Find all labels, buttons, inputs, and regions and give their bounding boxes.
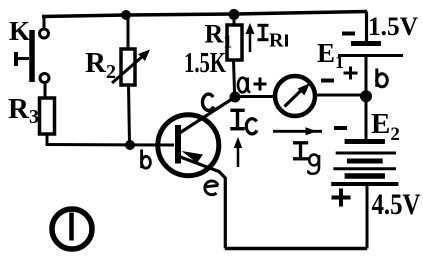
label minus meter bbox=[321, 79, 334, 83]
node junction dot (R1 top) bbox=[229, 9, 240, 20]
svg-text:1.5K: 1.5K bbox=[184, 47, 226, 79]
label plus E1 bbox=[344, 67, 358, 80]
resistor R1 bbox=[227, 16, 242, 92]
wire bottom bbox=[225, 247, 367, 251]
resistor R2 variable bbox=[112, 16, 150, 144]
label c bbox=[203, 94, 214, 110]
wire node a to meter bbox=[241, 95, 276, 98]
current arrow I_g bbox=[273, 127, 322, 135]
svg-text:R: R bbox=[269, 30, 284, 52]
label I_C bbox=[230, 110, 244, 128]
label a bbox=[238, 78, 250, 93]
label I_g bbox=[293, 143, 308, 159]
switch K bbox=[16, 17, 49, 99]
wire bottom-left to base bbox=[46, 143, 175, 147]
svg-text:1.5V: 1.5V bbox=[368, 12, 418, 41]
svg-text:K: K bbox=[9, 16, 30, 46]
node junction dot (R2 top) bbox=[121, 10, 131, 20]
transistor Q1 bbox=[158, 97, 235, 249]
label b node bbox=[377, 69, 388, 87]
current arrow I_R1 bbox=[246, 23, 255, 52]
label minus E2 bbox=[334, 126, 347, 130]
figure mark circled I bbox=[52, 209, 92, 249]
node junction dot (R2 bottom) bbox=[125, 140, 135, 150]
node b bbox=[360, 90, 372, 102]
battery E1 bbox=[338, 12, 403, 92]
current arrow I_C bbox=[234, 137, 242, 167]
label minus E1 bbox=[342, 32, 355, 36]
resistor R3 bbox=[40, 98, 55, 134]
label I_R1 bbox=[258, 25, 269, 39]
svg-text:4.5V: 4.5V bbox=[372, 188, 421, 221]
label plus E2 bbox=[332, 189, 351, 207]
node a bbox=[230, 92, 241, 103]
wire R3 bottom bbox=[46, 134, 49, 145]
battery E2 bbox=[331, 101, 398, 249]
label e bbox=[204, 181, 218, 195]
wire top rail bbox=[42, 12, 367, 17]
wire meter to node b bbox=[315, 94, 361, 97]
label plus at a bbox=[254, 78, 267, 91]
galvanometer G bbox=[275, 76, 315, 116]
label b bbox=[142, 150, 151, 169]
